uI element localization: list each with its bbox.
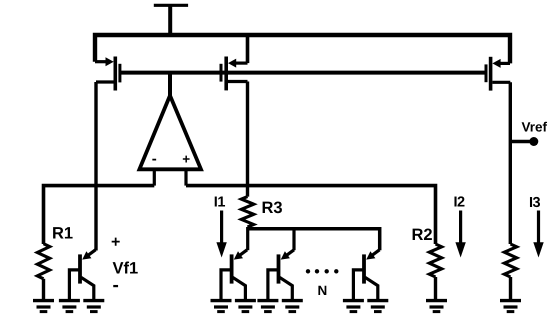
svg-text:-: - (152, 151, 157, 168)
label I2 (454, 195, 466, 211)
transistor Q1 (pnp diode-connected) (69, 250, 95, 300)
wire M1 drain down to inverting node and Q1 emitter (94, 82, 97, 251)
pmos M1 (left mirror transistor) (95, 57, 120, 91)
label I1 (214, 195, 226, 211)
pmos M3 (right mirror transistor) (486, 57, 510, 91)
op-amp U1 (139, 96, 201, 186)
svg-text:+: + (111, 234, 120, 251)
transistor Q3 (array pnp 2) (268, 250, 294, 300)
ground (R2) (426, 301, 447, 312)
wire common gate line (121, 71, 485, 75)
ground (output resistor) (500, 301, 521, 312)
svg-text:I3: I3 (529, 195, 541, 211)
svg-text:R3: R3 (262, 199, 283, 217)
ground (Q1 collector) (83, 301, 104, 312)
power VDD supply symbol (154, 4, 188, 7)
wire M2 drain down through non-inverting node into R3 (246, 82, 249, 197)
label R2 (412, 226, 433, 244)
ground (Q4 collector) (367, 301, 388, 312)
ground (Q1 base) (59, 301, 80, 312)
resistor R4 (output, unlabeled) (504, 244, 516, 300)
label Vref (522, 120, 548, 135)
label R1 (52, 225, 73, 243)
label Vf1 with polarity marks (111, 234, 138, 296)
wire non-inverting input net to R2 (186, 186, 436, 244)
svg-text:R1: R1 (52, 225, 73, 243)
current arrow I1 (216, 211, 226, 258)
current arrow I3 (533, 211, 543, 258)
svg-text:-: - (113, 275, 119, 296)
wire op-amp output up to gate line (168, 73, 172, 97)
wire top supply rail with end drops (95, 35, 510, 63)
dots array continuation (306, 269, 339, 273)
wire inverting input net to R1 (44, 186, 155, 244)
wire R3 bottom node to bjt array emitters (248, 227, 380, 250)
transistor Q4 (array pnp N) (353, 250, 379, 300)
label R3 (262, 199, 283, 217)
svg-text:R2: R2 (412, 226, 433, 244)
resistor R2 (429, 244, 441, 300)
ground (R1) (33, 301, 54, 312)
resistor R3 (241, 197, 253, 227)
transistor Q2 (array pnp 1) (221, 250, 247, 300)
ground (Q3 collector) (282, 301, 303, 312)
ground (Q2 collector) (235, 301, 256, 312)
svg-text:I1: I1 (214, 195, 226, 211)
svg-text:I2: I2 (454, 195, 466, 211)
node Vref output (510, 137, 538, 146)
resistor R1 (37, 244, 49, 300)
svg-text:N: N (318, 283, 328, 298)
pmos M2 (middle mirror transistor) (221, 57, 248, 91)
label I3 (529, 195, 541, 211)
svg-text:+: + (182, 151, 190, 166)
ground (Q2 base) (211, 301, 232, 312)
wire VDD stem (168, 5, 172, 35)
ground (Q3 base) (257, 301, 278, 312)
label N (array multiplicity) (318, 283, 328, 298)
wire M3 drain down to Vref node and output resistor (509, 82, 512, 244)
wire M2 source drop from rail (246, 35, 250, 63)
current arrow I2 (455, 211, 465, 258)
ground (Q4 base) (343, 301, 364, 312)
svg-text:Vref: Vref (522, 120, 548, 135)
